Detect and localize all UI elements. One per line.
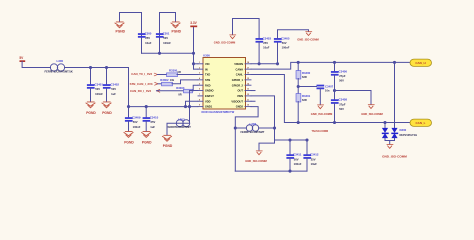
svg-text:7: 7 xyxy=(199,94,200,96)
svg-text:VDD: VDD xyxy=(205,99,211,103)
svg-text:C3401: C3401 xyxy=(95,82,104,86)
svg-text:25V: 25V xyxy=(151,120,156,124)
svg-text:C3412: C3412 xyxy=(310,153,319,157)
svg-text:50V: 50V xyxy=(294,157,299,161)
svg-text:R3400: R3400 xyxy=(302,71,311,75)
svg-text:C3406: C3406 xyxy=(339,69,348,73)
svg-text:FERRITE/CHIP/SMT/1K: FERRITE/CHIP/SMT/1K xyxy=(45,70,73,74)
svg-text:6: 6 xyxy=(199,89,200,91)
svg-text:100nF: 100nF xyxy=(95,92,103,96)
svg-text:16: 16 xyxy=(247,73,249,75)
svg-text:CAN_TX_I_3V3: CAN_TX_I_3V3 xyxy=(131,72,152,76)
svg-text:10uF: 10uF xyxy=(263,46,270,50)
svg-text:9: 9 xyxy=(199,105,200,107)
svg-text:D300: D300 xyxy=(400,128,407,132)
svg-text:NUP2105LT1G: NUP2105LT1G xyxy=(400,133,418,137)
svg-text:50V: 50V xyxy=(163,36,168,40)
svg-text:PGND: PGND xyxy=(116,29,126,33)
svg-text:CAN_RX_I_3V3: CAN_RX_I_3V3 xyxy=(130,89,151,93)
svg-text:PGND: PGND xyxy=(124,141,134,145)
svg-text:R3303: R3303 xyxy=(176,86,185,90)
svg-text:27pF: 27pF xyxy=(339,102,346,106)
svg-text:15: 15 xyxy=(247,78,249,80)
svg-text:CANL: CANL xyxy=(236,73,244,77)
svg-text:5: 5 xyxy=(199,83,200,85)
svg-text:L303: L303 xyxy=(178,118,185,122)
svg-text:FERRITE/CHIP/SMT: FERRITE/CHIP/SMT xyxy=(241,130,265,134)
svg-text:OUT: OUT xyxy=(238,89,244,93)
svg-text:GNDIO: GNDIO xyxy=(205,89,214,93)
svg-text:13: 13 xyxy=(247,89,249,91)
svg-text:3: 3 xyxy=(199,73,200,75)
svg-text:GND_ISO-COMM: GND_ISO-COMM xyxy=(311,112,333,116)
svg-text:GND2: GND2 xyxy=(236,105,244,109)
svg-text:GND_ISO-COMM: GND_ISO-COMM xyxy=(361,112,383,116)
svg-text:STB: STB xyxy=(205,78,210,82)
svg-text:VSIN: VSIN xyxy=(237,94,243,98)
svg-text:RXD: RXD xyxy=(205,83,211,87)
svg-text:18: 18 xyxy=(247,62,249,64)
svg-text:VISOOUT: VISOOUT xyxy=(231,99,243,103)
svg-text:PGND: PGND xyxy=(86,111,96,115)
svg-text:50V: 50V xyxy=(282,41,287,45)
svg-text:C300: C300 xyxy=(145,31,152,35)
svg-text:C3407: C3407 xyxy=(325,85,334,89)
svg-text:GND1: GND1 xyxy=(205,105,213,109)
svg-text:10uF: 10uF xyxy=(145,41,152,45)
svg-text:C3403: C3403 xyxy=(263,36,272,40)
svg-text:C3405: C3405 xyxy=(281,36,290,40)
svg-text:CANH: CANH xyxy=(236,67,244,71)
svg-text:STB_CAN_I_3V3: STB_CAN_I_3V3 xyxy=(130,82,153,86)
svg-text:C3410: C3410 xyxy=(150,115,159,119)
svg-text:27pF: 27pF xyxy=(339,74,346,78)
svg-text:TN-ISO-COMM: TN-ISO-COMM xyxy=(312,130,328,133)
svg-text:R3300: R3300 xyxy=(169,68,178,72)
svg-text:R3401: R3401 xyxy=(302,94,311,98)
svg-text:GND_ISO-COMM: GND_ISO-COMM xyxy=(214,41,236,45)
svg-text:50V: 50V xyxy=(111,87,116,91)
svg-text:0R: 0R xyxy=(178,70,181,74)
svg-text:1: 1 xyxy=(199,62,200,64)
svg-text:L300: L300 xyxy=(57,59,64,63)
svg-text:PGND: PGND xyxy=(142,141,152,145)
svg-text:1uF: 1uF xyxy=(111,92,116,96)
svg-text:GND_ISO-COMM: GND_ISO-COMM xyxy=(245,159,267,163)
svg-text:100nF: 100nF xyxy=(133,125,141,129)
svg-text:PGND: PGND xyxy=(163,144,173,148)
svg-text:C3408: C3408 xyxy=(339,98,348,102)
svg-text:GND_ISO-COMM: GND_ISO-COMM xyxy=(297,38,319,42)
svg-text:VISOIN: VISOIN xyxy=(234,62,243,66)
svg-text:C3409: C3409 xyxy=(132,115,141,119)
svg-text:10n: 10n xyxy=(325,89,330,93)
svg-text:100nF: 100nF xyxy=(163,41,171,45)
svg-text:VIO: VIO xyxy=(205,62,209,66)
svg-text:DCW CHASSIS/STWRCTW: DCW CHASSIS/STWRCTW xyxy=(202,110,235,114)
svg-text:8: 8 xyxy=(199,99,200,101)
svg-text:PGND: PGND xyxy=(172,29,182,33)
svg-text:R3302: R3302 xyxy=(160,78,169,82)
svg-text:10: 10 xyxy=(247,105,249,107)
svg-text:50V: 50V xyxy=(95,87,100,91)
svg-text:10uF: 10uF xyxy=(311,162,318,166)
svg-text:IN: IN xyxy=(205,67,208,71)
svg-text:GPIOR_1: GPIOR_1 xyxy=(232,78,244,82)
svg-text:CAN_L: CAN_L xyxy=(415,121,425,125)
svg-text:GPIOR_2: GPIOR_2 xyxy=(232,83,244,87)
svg-text:10k: 10k xyxy=(170,78,175,82)
svg-text:C3402: C3402 xyxy=(111,82,120,86)
svg-text:17: 17 xyxy=(247,67,249,69)
svg-text:50V: 50V xyxy=(339,79,344,83)
svg-text:FERRITE/CHIP/SMT: FERRITE/CHIP/SMT xyxy=(167,125,191,129)
svg-text:50V: 50V xyxy=(339,107,344,111)
svg-text:62R: 62R xyxy=(302,75,307,79)
svg-text:C3411: C3411 xyxy=(293,153,302,157)
svg-text:25V: 25V xyxy=(145,36,150,40)
svg-text:CAN_H: CAN_H xyxy=(415,61,425,65)
svg-text:25V: 25V xyxy=(311,157,316,161)
svg-text:PGND: PGND xyxy=(102,111,112,115)
svg-text:3.3V: 3.3V xyxy=(190,21,197,25)
svg-text:0R: 0R xyxy=(178,92,181,96)
svg-text:1uF: 1uF xyxy=(150,125,155,129)
svg-text:100nF: 100nF xyxy=(282,46,290,50)
svg-text:25V: 25V xyxy=(263,41,268,45)
svg-text:62R: 62R xyxy=(302,98,307,102)
svg-text:12: 12 xyxy=(247,94,249,96)
svg-text:C301: C301 xyxy=(163,31,170,35)
svg-text:50V: 50V xyxy=(133,120,138,124)
svg-text:11: 11 xyxy=(247,99,249,101)
svg-text:GND_ISO-COMM: GND_ISO-COMM xyxy=(382,155,407,159)
svg-text:TXD: TXD xyxy=(205,73,210,77)
svg-text:2: 2 xyxy=(199,67,200,69)
svg-text:L302: L302 xyxy=(250,122,257,126)
svg-text:100nF: 100nF xyxy=(294,162,302,166)
svg-text:EN/FLT: EN/FLT xyxy=(205,94,214,98)
svg-text:U300: U300 xyxy=(203,54,210,58)
